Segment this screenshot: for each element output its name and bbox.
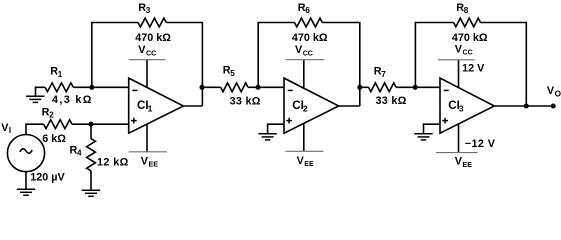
svg-text:CC: CC [463, 49, 473, 57]
wire CI2 plus to ground [268, 124, 284, 134]
wire CI2 output [339, 105, 360, 107]
svg-text:12 V: 12 V [462, 63, 485, 75]
node VO terminal [551, 103, 556, 108]
svg-text:O: O [555, 90, 561, 99]
svg-text:120 µV: 120 µV [30, 172, 65, 184]
svg-text:I: I [9, 126, 11, 135]
plus input sign [286, 118, 292, 124]
op-amp CI2 [284, 78, 339, 133]
svg-text:470 kΩ: 470 kΩ [452, 32, 488, 44]
svg-text:1: 1 [148, 104, 153, 114]
wire node A to CI1 minus [92, 86, 129, 88]
feedback loop R8 wires [415, 23, 453, 88]
svg-text:EE: EE [463, 161, 473, 169]
wire R1 to node [73, 86, 92, 88]
node R7/R8 junction [413, 85, 418, 90]
svg-text:6: 6 [305, 6, 310, 15]
svg-text:EE: EE [149, 161, 159, 169]
svg-text:CC: CC [303, 49, 313, 57]
VCC supply CI1 [146, 60, 148, 88]
svg-text:2: 2 [303, 104, 308, 114]
svg-text:8: 8 [464, 6, 469, 15]
VCC supply CI3 [458, 60, 460, 88]
svg-text:3: 3 [459, 104, 464, 114]
node B junction R2/R4 [88, 122, 93, 127]
op-amp CI3 [440, 78, 494, 133]
svg-text:7: 7 [381, 70, 386, 79]
op-amp CI1 [129, 78, 184, 133]
minus input sign [444, 89, 449, 91]
svg-text:470 kΩ: 470 kΩ [292, 32, 328, 44]
svg-text:5: 5 [230, 69, 235, 78]
minus input sign [288, 89, 293, 91]
ground at CI3 plus [414, 134, 432, 140]
plus input sign [131, 118, 137, 124]
svg-text:3: 3 [146, 6, 151, 15]
wire ground to R1 [36, 87, 46, 96]
node R5/R6 junction [255, 85, 260, 90]
wire to CI2 minus [258, 86, 284, 88]
feedback loop R3 wires [92, 23, 138, 88]
resistor R5 [202, 86, 221, 88]
svg-text:33 kΩ: 33 kΩ [230, 95, 261, 107]
node A junction R1/R3 [89, 85, 94, 90]
svg-text:−12 V: −12 V [465, 138, 496, 150]
VEE supply CI2 [303, 124, 305, 152]
resistor R6 [295, 18, 323, 27]
svg-text:4: 4 [77, 149, 82, 158]
svg-text:EE: EE [304, 160, 314, 168]
plus input sign [442, 118, 448, 124]
svg-text:12 kΩ: 12 kΩ [97, 156, 129, 168]
wire node B to CI1 plus [91, 123, 129, 125]
resistor R7 [360, 86, 369, 88]
svg-text:6 kΩ: 6 kΩ [42, 133, 66, 145]
ground at R4 [82, 190, 100, 196]
resistor R4 [90, 124, 92, 138]
wire VI top to R2 [26, 124, 44, 134]
node CI2 out junction [357, 85, 362, 90]
wire CI3 output to VO [494, 105, 553, 107]
ground at R1 input [26, 96, 44, 102]
resistor R1 [45, 83, 73, 92]
node R8/output junction [524, 103, 529, 108]
VEE supply CI1 [146, 124, 148, 152]
wire R2 to node [72, 123, 91, 125]
wire CI1 output [183, 105, 202, 107]
svg-text:4,3 kΩ: 4,3 kΩ [52, 94, 93, 106]
resistor R8 [454, 18, 481, 27]
svg-text:470 kΩ: 470 kΩ [135, 32, 171, 44]
VCC supply CI2 [303, 60, 305, 88]
sine symbol [20, 149, 32, 153]
ground at VI [17, 189, 35, 195]
svg-text:CC: CC [146, 49, 156, 57]
wire CI3 plus to ground [424, 124, 441, 134]
VEE supply CI3 [458, 124, 460, 153]
svg-text:2: 2 [49, 111, 54, 120]
feedback loop R6 wires [258, 23, 294, 88]
minus input sign [132, 89, 137, 91]
ground at CI2 plus [258, 134, 276, 140]
svg-text:1: 1 [58, 70, 63, 79]
wire VI bottom to ground [25, 172, 27, 190]
resistor R3 [138, 18, 166, 27]
source VI [7, 135, 44, 172]
svg-text:33 kΩ: 33 kΩ [376, 95, 407, 107]
resistor R2 [44, 120, 72, 129]
wire to CI3 minus [415, 86, 440, 88]
node CI1 out junction [199, 85, 204, 90]
